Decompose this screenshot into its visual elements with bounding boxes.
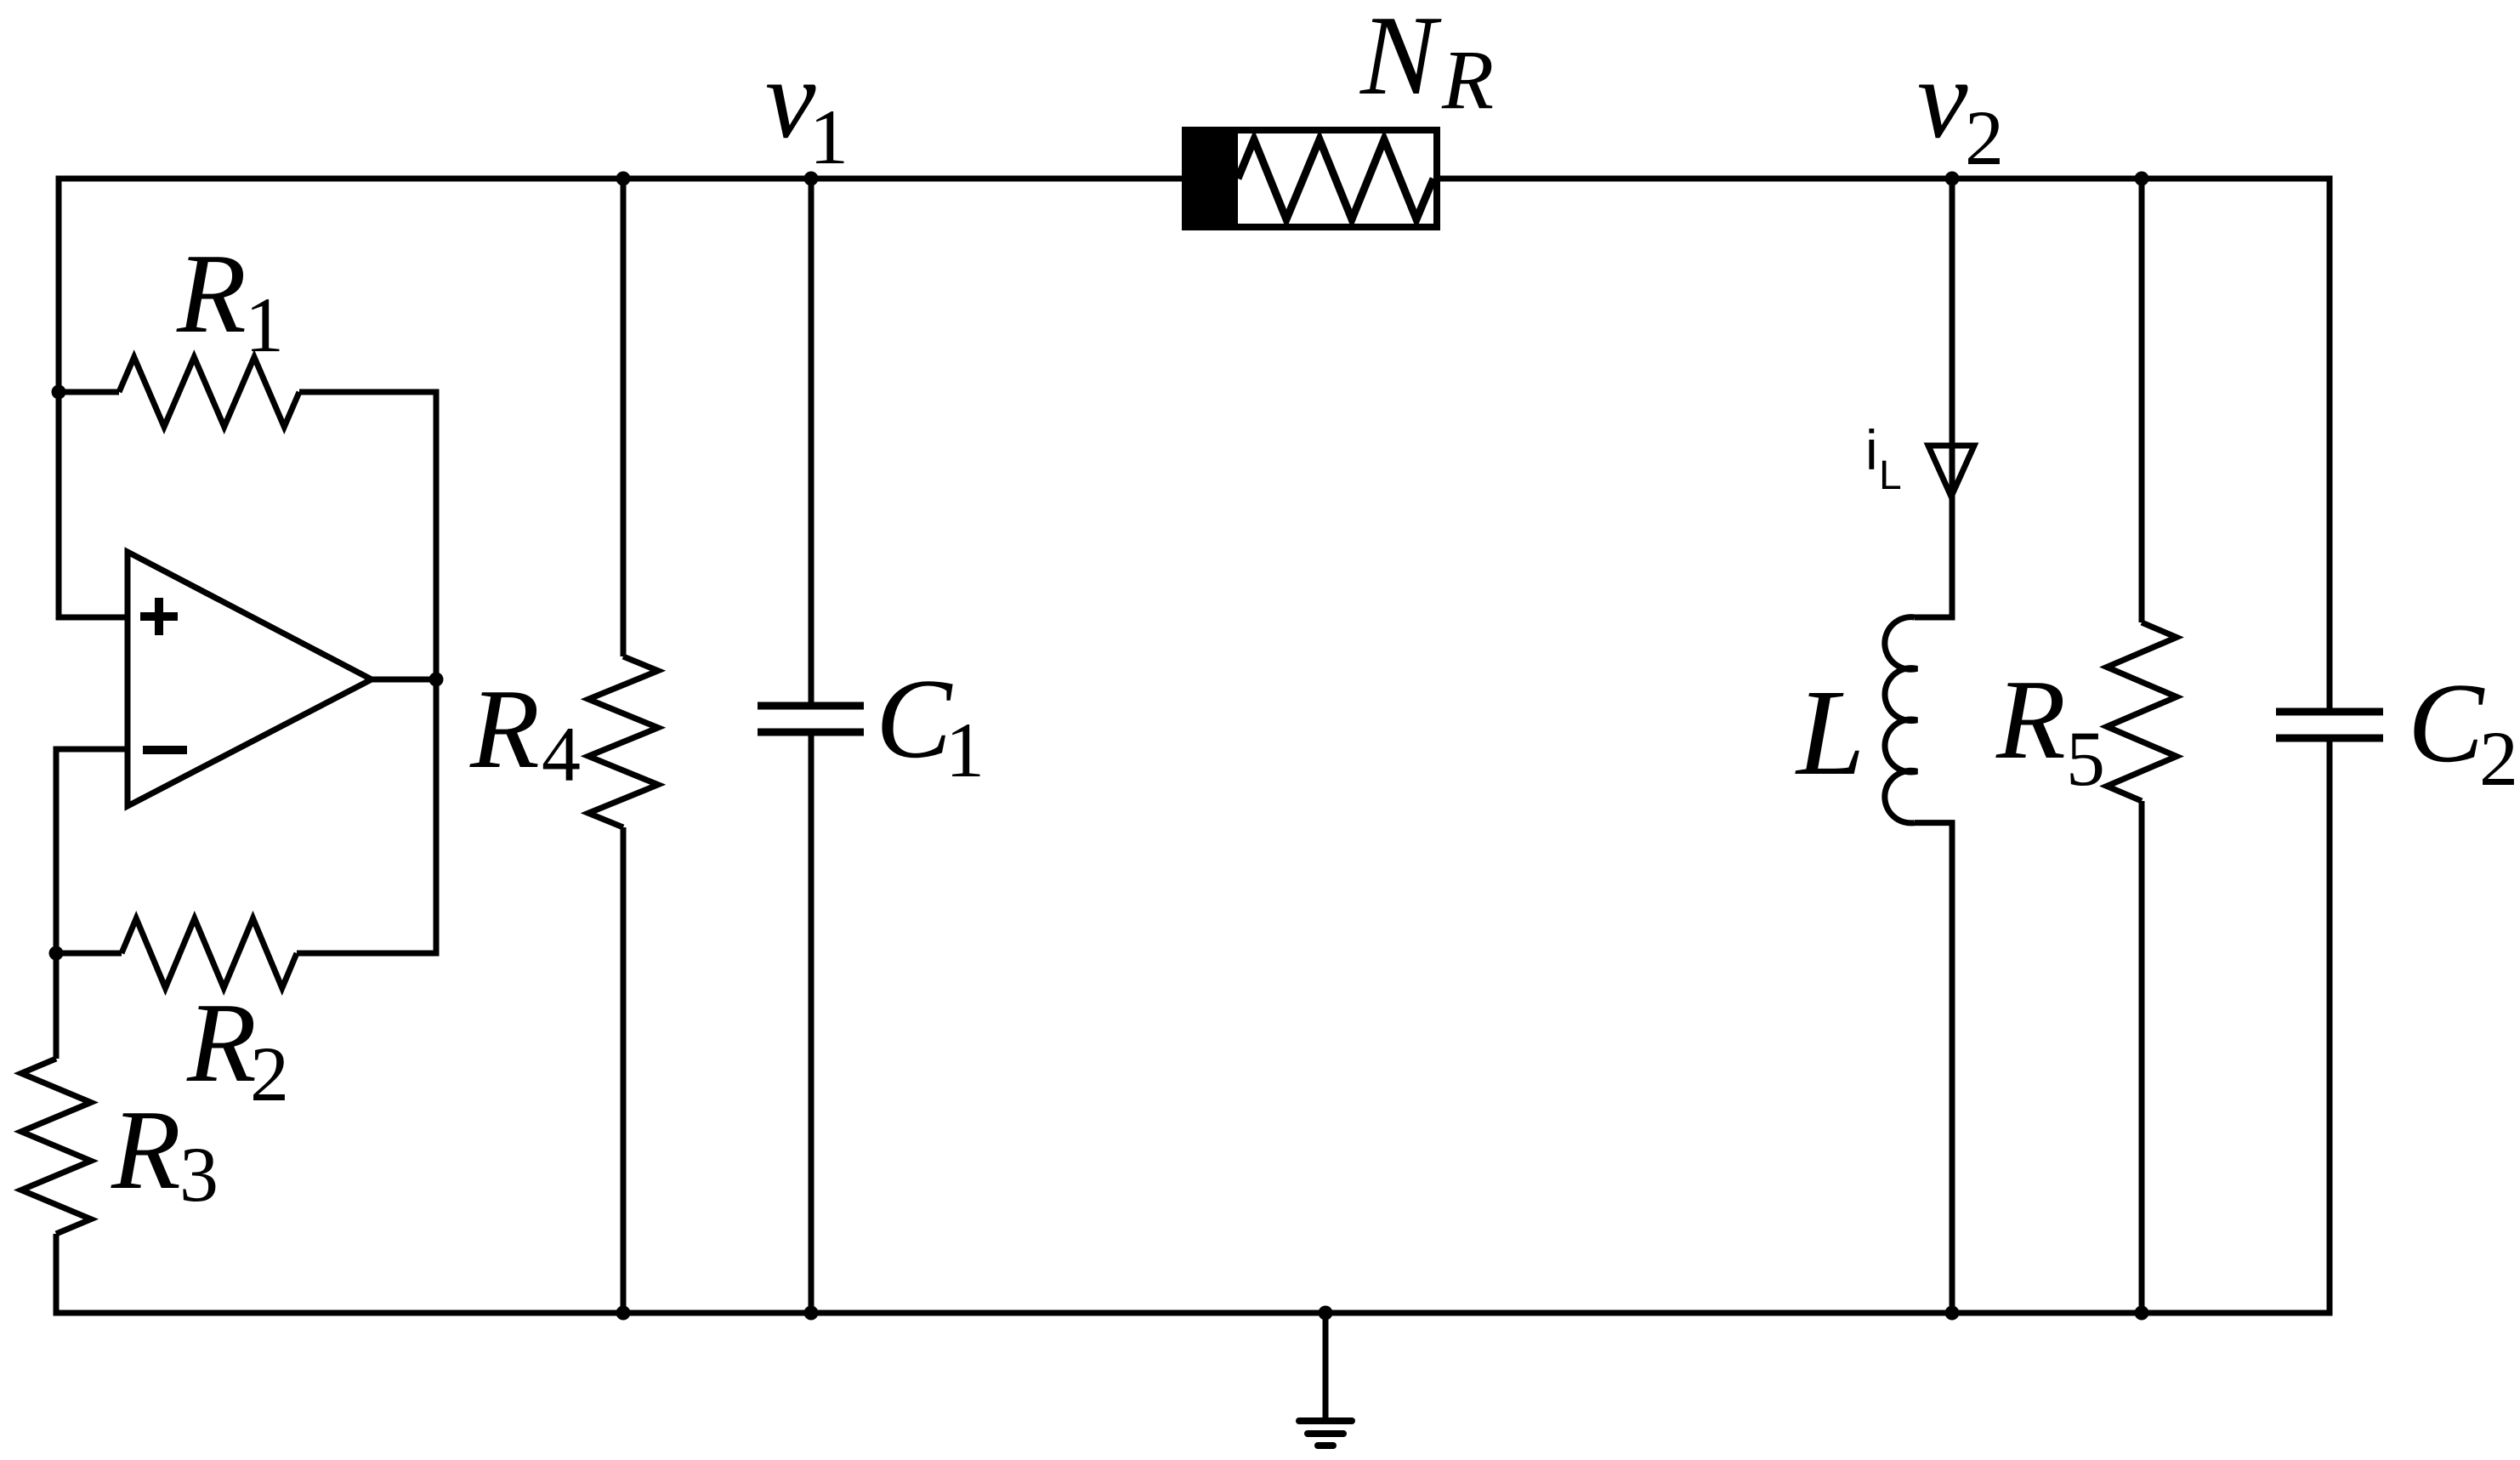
- svg-text:4: 4: [542, 711, 581, 798]
- svg-text:L: L: [1795, 665, 1865, 801]
- svg-text:2: 2: [2479, 715, 2518, 802]
- svg-text:1: 1: [945, 707, 985, 793]
- svg-text:R: R: [469, 666, 540, 792]
- svg-text:R: R: [176, 230, 247, 356]
- svg-text:v: v: [1917, 36, 1968, 162]
- svg-text:N: N: [1359, 0, 1442, 118]
- svg-text:5: 5: [2066, 715, 2105, 802]
- svg-text:C: C: [876, 656, 953, 781]
- svg-text:1: 1: [809, 94, 849, 180]
- svg-text:R: R: [186, 980, 257, 1105]
- svg-text:i: i: [1865, 418, 1878, 481]
- svg-text:2: 2: [1965, 94, 2004, 181]
- svg-text:R: R: [111, 1087, 181, 1213]
- svg-text:1: 1: [245, 281, 284, 368]
- svg-text:v: v: [765, 36, 816, 162]
- svg-text:2: 2: [250, 1031, 289, 1117]
- svg-text:R: R: [1995, 656, 2066, 782]
- svg-text:L: L: [1879, 453, 1902, 498]
- svg-text:3: 3: [179, 1131, 219, 1218]
- svg-text:R: R: [1441, 32, 1494, 127]
- svg-text:C: C: [2408, 660, 2485, 786]
